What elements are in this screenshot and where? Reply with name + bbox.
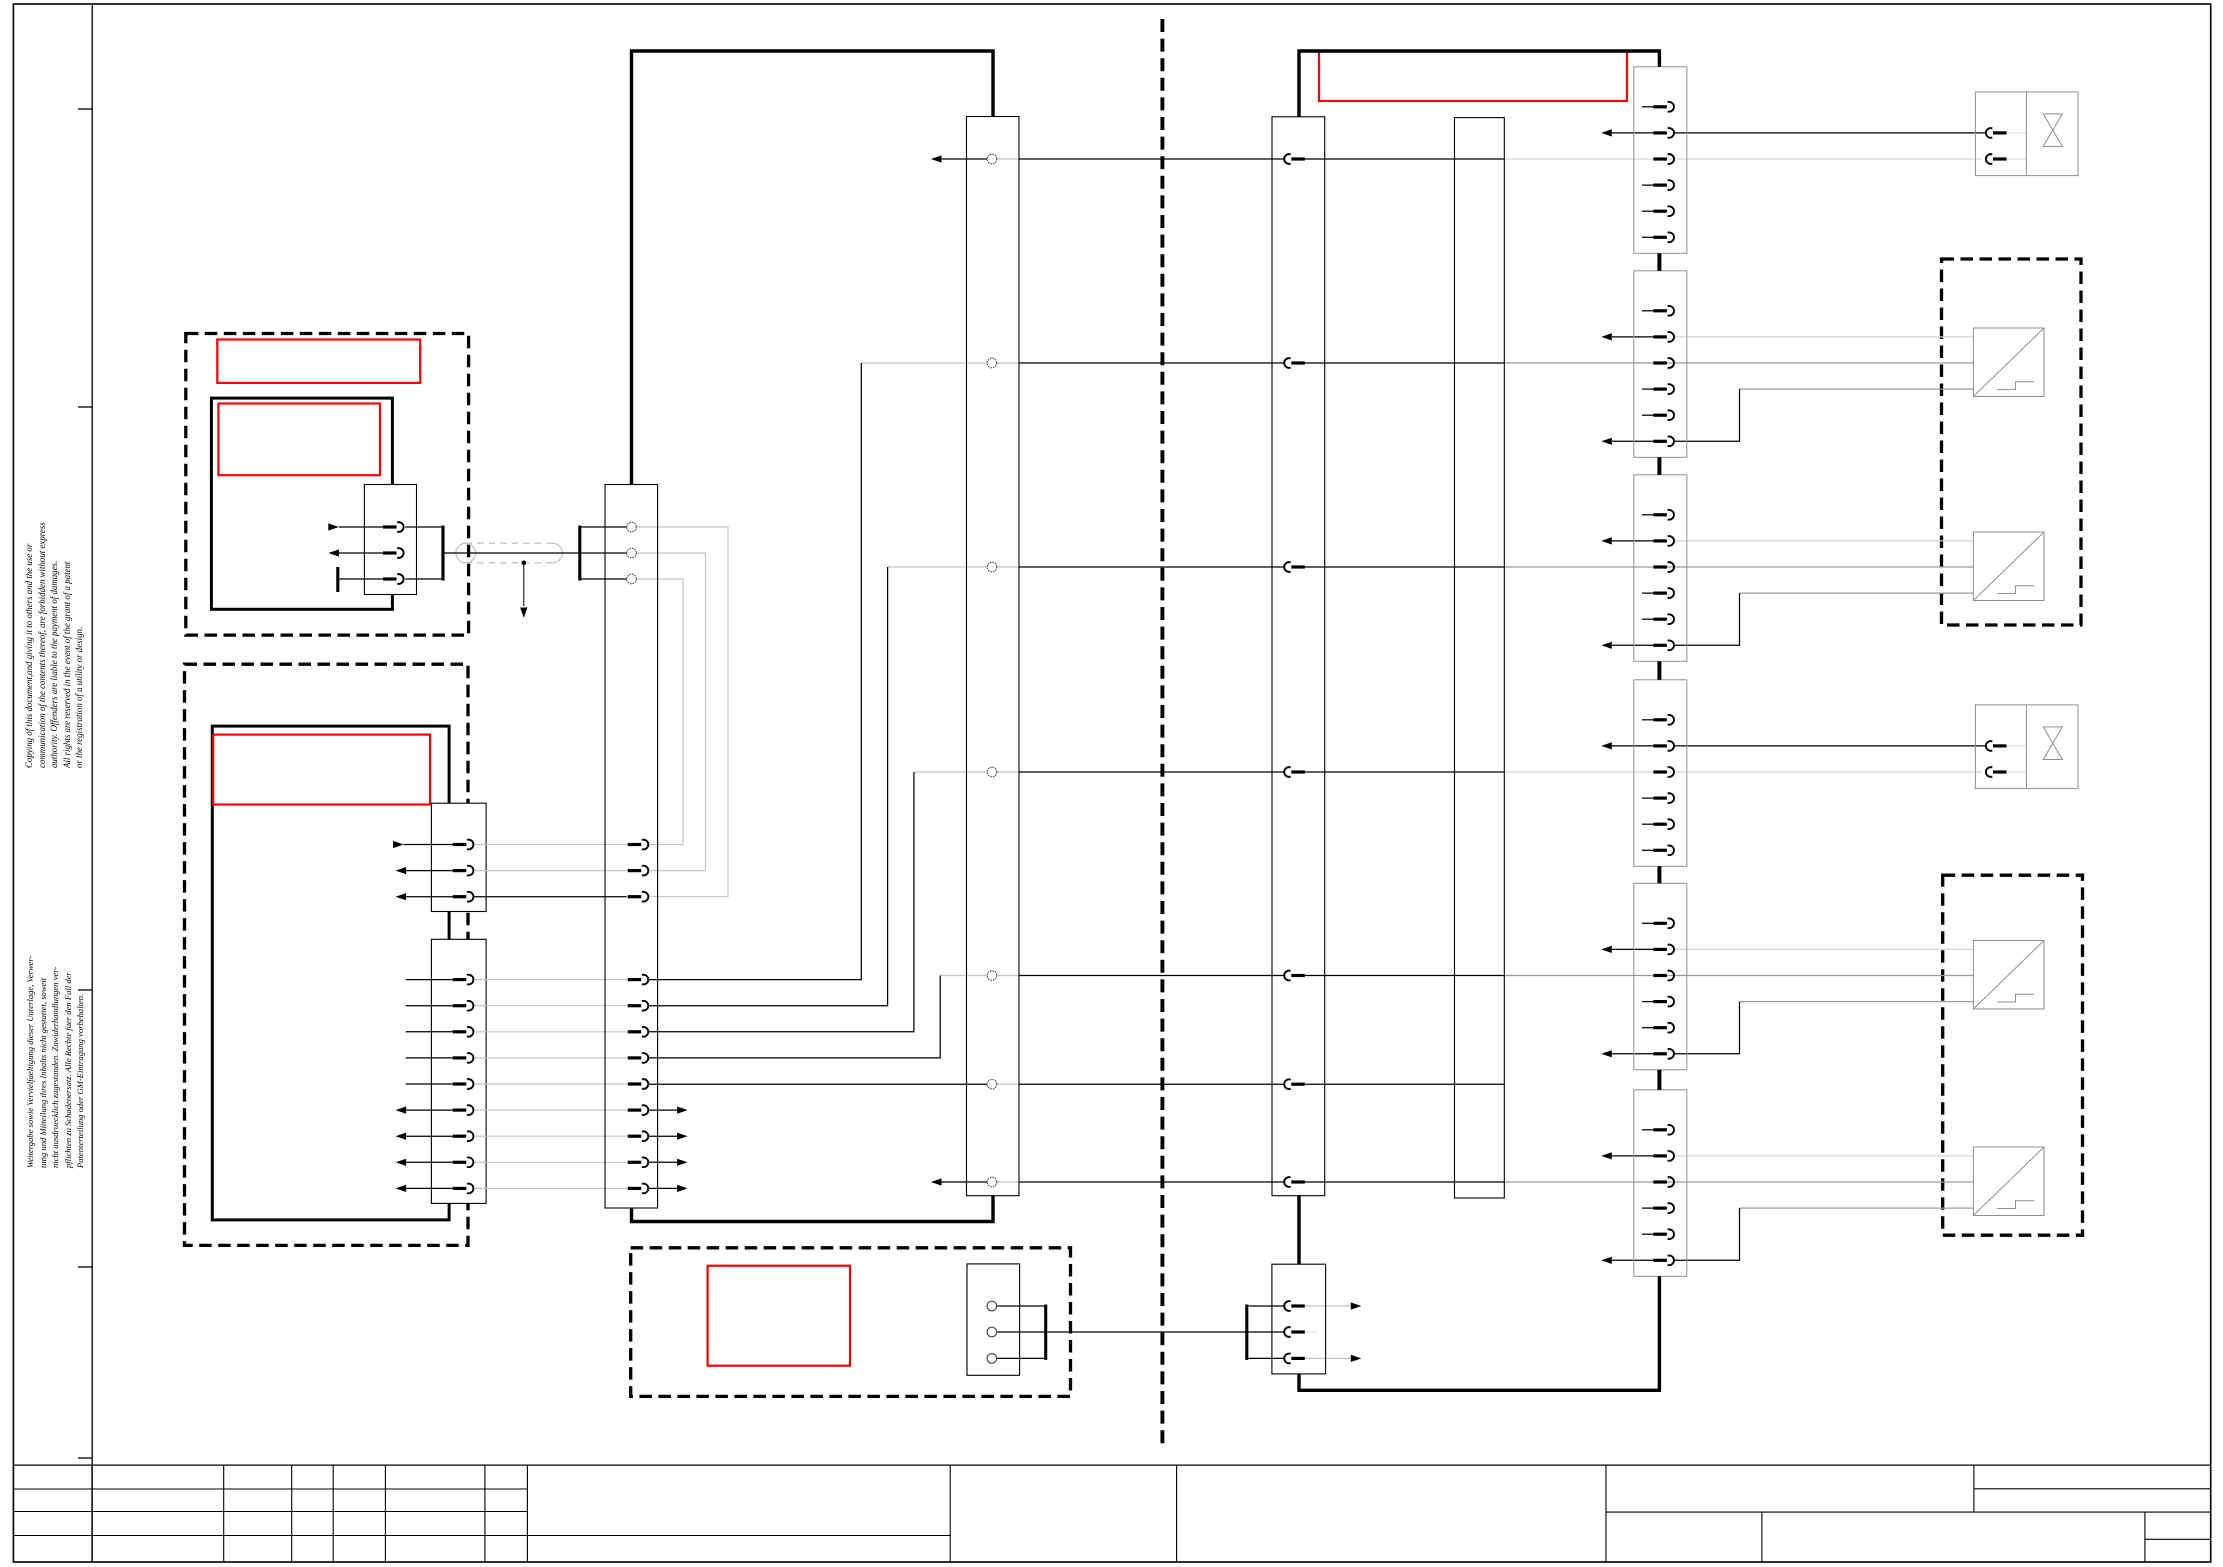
frame margin line (91, 4, 93, 1562)
T1 node 7 gray stub (997, 1181, 1019, 1183)
connector B1 outline (431, 803, 486, 911)
column X2 pin row 1 (628, 840, 649, 850)
plug X4 pin 2 (1284, 1327, 1305, 1337)
strip S6 pin 3 (1653, 1177, 1674, 1187)
arrow out of S5 pin6 (1601, 1050, 1655, 1057)
strip S1 pin 5 stub (1642, 210, 1655, 212)
device A1 inner label red box (218, 404, 380, 476)
wire R5 riser (648, 976, 940, 1058)
column X2 pin row 9 (628, 1105, 649, 1115)
B1-X2 link 2 (473, 870, 627, 872)
T1 node 7 (987, 1177, 997, 1187)
wire sensor B3 pin3 jog (1674, 1002, 1740, 1054)
strip S2 pin 1 stub (1642, 310, 1655, 312)
wire R6 direct (648, 1083, 987, 1085)
wire R3 cross (1019, 566, 1285, 568)
solenoid valve Y2 pin 1 stub (2005, 745, 2026, 747)
link X2.1 wire (636, 527, 728, 897)
arrow out of X4 pin1 (1303, 1302, 1361, 1309)
arrow out of S5 pin2 (1601, 946, 1655, 953)
copyright notice (german) (24, 955, 87, 1168)
wire sensor B4 pin3 jog (1674, 1208, 1740, 1260)
connector B1 pin 1 (453, 840, 474, 850)
wire device A2 to B2 pin 3 (406, 1031, 455, 1033)
strip S5 pin 3 (1653, 971, 1674, 981)
plug X1 pin 2 (383, 548, 404, 558)
terminal strip S5 outline (1634, 883, 1687, 1070)
strip S3 pin 5 (1653, 614, 1674, 624)
wire S4.2 to Y2 (1674, 745, 1986, 747)
strip S4 pin 1 stub (1642, 719, 1655, 721)
socket X3 contact 1 (987, 1301, 997, 1311)
arrow out of S6 pin6 (1601, 1257, 1655, 1264)
T1 node 4 gray stub (997, 771, 1019, 773)
arrow out of B2 pin 9 (396, 1185, 455, 1192)
strip S3 pin 1 stub (1642, 514, 1655, 516)
strip S2 pin 4 (1653, 384, 1674, 394)
column X2 pin row 4 (628, 975, 649, 985)
frame tick (78, 108, 92, 110)
wire device A2 to B2 pin 5 (406, 1083, 455, 1085)
solenoid valve Y1 pin 2 stub (2005, 158, 2026, 160)
wire S2 row3 gray (1504, 362, 1973, 364)
strip S2 pin 5 (1653, 410, 1674, 420)
T2 plug pin 7 (1284, 1177, 1305, 1187)
strip S3 pin 1 (1653, 510, 1674, 520)
solenoid valve Y1 pin 1 (1986, 128, 2007, 138)
column X2 pin row 12 (628, 1184, 649, 1194)
wire R4 riser (648, 772, 914, 1032)
terminal strip S3 outline (1634, 475, 1687, 662)
B2-X2 link 5 (473, 1083, 627, 1085)
wire X3 to X4 cross (1047, 1331, 1284, 1333)
strip S3 pin 4 stub (1642, 592, 1655, 594)
strip S2 pin 2 (1653, 332, 1674, 342)
connector column X2 outline (605, 485, 658, 1209)
strip S4 pin 6 (1653, 845, 1674, 855)
strip S6 pin 6 (1653, 1255, 1674, 1265)
strip S1 pin 1 (1653, 102, 1674, 112)
signal arrow into X1 pin1 (328, 523, 384, 530)
wire S1 row3 gray (1504, 158, 1981, 160)
T1 node 6 gray stub (997, 1083, 1019, 1085)
wire R3 riser (648, 567, 888, 1006)
solenoid valve Y1 pin 2 (1986, 154, 2007, 164)
T2 plug pin 2 (1284, 358, 1305, 368)
plc output label red box (1319, 52, 1627, 102)
terminal strip S6 outline (1634, 1090, 1687, 1277)
strip S4 pin 5 (1653, 819, 1674, 829)
solenoid valve Y2 body (1975, 705, 2078, 789)
socket bracket at X2 (580, 526, 627, 581)
wire S2.2 to sensor B1 (1674, 336, 1974, 338)
T1 node 3 gray stub (997, 566, 1019, 568)
strip S5 pin 1 (1653, 918, 1674, 928)
arrow out of S4 pin2 (1601, 742, 1655, 749)
wire R4 cross (1019, 771, 1285, 773)
arrow out of B2 pin 7 (396, 1133, 455, 1140)
strip S3 pin 5 stub (1642, 618, 1655, 620)
wire S6 row3 gray (1504, 1181, 1973, 1183)
arrow out of B2 pin 6 (396, 1107, 455, 1114)
strip S1 pin 3 (1653, 154, 1674, 164)
strip S1-S2 jumper (thick) (1657, 253, 1661, 270)
T2 plug pin 6 (1284, 1079, 1305, 1089)
wire duct T1 outline (967, 117, 1020, 1196)
strip S3 pin 2 (1653, 536, 1674, 546)
link X2.3 wire (636, 579, 683, 845)
connector B2 pin 2 (453, 1001, 474, 1011)
strip S1 pin 1 stub (1642, 106, 1655, 108)
B1-X2 link 1 (473, 844, 627, 846)
shield T terminator (338, 567, 385, 592)
T1 node 1 (987, 154, 997, 164)
arrow into B1 pin1 (393, 841, 454, 848)
strip S2 pin 5 stub (1642, 414, 1655, 416)
signal arrow out of X1 pin2 (328, 549, 384, 556)
link X2.2 wire (636, 553, 705, 871)
return cable from T1 (thick) (632, 1196, 994, 1222)
strip S6 pin 1 (1653, 1125, 1674, 1135)
T2 plug pin 1 (1284, 154, 1305, 164)
X2 socket contact 1 (627, 522, 637, 532)
strip S1 pin 4 stub (1642, 184, 1655, 186)
wire sensor B2 pin3 lead (1740, 592, 1974, 594)
frame tick (78, 989, 92, 991)
wire S1.2 to Y1 (1674, 132, 1986, 134)
arrow out of S3 pin6 (1601, 642, 1655, 649)
wire R1 to duct (1303, 158, 1504, 160)
strip S1 pin 2 (1653, 128, 1674, 138)
connector B2 pin 7 (453, 1131, 474, 1141)
arrow out of B1 pin3 (396, 893, 455, 900)
strip S4 pin 1 (1653, 715, 1674, 725)
wire R5 cross (1019, 975, 1285, 977)
proximity sensor B3 body (1973, 941, 2044, 1010)
main cable to T1 (thick) (632, 51, 994, 485)
cable shield drain (520, 561, 527, 619)
wire sensor B1 pin3 jog (1674, 389, 1740, 441)
socket X3 outline (967, 1264, 1020, 1375)
wire device A2 to B2 pin 4 (406, 1057, 455, 1059)
connector B2 pin 6 (453, 1105, 474, 1115)
strip S2-S3 jumper (thick) (1657, 457, 1661, 475)
strip S1 pin 6 (1653, 232, 1674, 242)
B1-X2 link 3 (473, 896, 627, 898)
B2-X2 link 1 (473, 979, 627, 981)
wire R4 to duct (1303, 771, 1504, 773)
strip S5 pin 4 stub (1642, 1001, 1655, 1003)
strip S5 pin 5 (1653, 1023, 1674, 1033)
plug X4 pin 3 (1284, 1354, 1305, 1364)
strip S3 pin 6 (1653, 640, 1674, 650)
wire S5.2 to sensor B3 (1674, 948, 1974, 950)
arrow out of X2 row 10 (648, 1133, 688, 1140)
X3 bracket (997, 1305, 1046, 1360)
sensor group B20 dashed enclosure (1943, 875, 2083, 1235)
strip S5-S6 jumper (thick) (1657, 1070, 1661, 1090)
arrow out of S1 pin2 (1601, 129, 1655, 136)
solenoid valve Y2 pin 2 (1986, 767, 2007, 777)
column X2 pin row 6 (628, 1027, 649, 1037)
frame tick (78, 1266, 92, 1268)
strip S6 pin 4 (1653, 1203, 1674, 1213)
terminal strip S2 outline (1634, 271, 1687, 458)
strip S1 pin 4 (1653, 180, 1674, 190)
strip S2 pin 4 stub (1642, 388, 1655, 390)
device A1 dashed enclosure (186, 334, 469, 636)
wire S6.2 to sensor B4 (1674, 1155, 1974, 1157)
arrow out of X4 pin3 (1303, 1355, 1361, 1362)
solenoid valve Y2 pin 1 (1986, 741, 2007, 751)
connector B2 pin 4 (453, 1053, 474, 1063)
connector B2 pin 9 (453, 1184, 474, 1194)
X4 pin2 stub (1303, 1331, 1317, 1333)
T1 node 4 (987, 767, 997, 777)
wire R2 to duct (1303, 362, 1504, 364)
B2-X2 link 9 (473, 1187, 627, 1189)
device A2 label red box (213, 735, 430, 805)
junction box dashed enclosure (631, 1248, 1071, 1397)
sensor group B10 dashed enclosure (1942, 259, 2082, 625)
column X2 pin row 5 (628, 1001, 649, 1011)
wire R6 cross (1019, 1083, 1285, 1085)
connector B2 pin 5 (453, 1079, 474, 1089)
strip S6 pin 2 (1653, 1151, 1674, 1161)
strip S4 pin 4 stub (1642, 797, 1655, 799)
strip S6 pin 4 stub (1642, 1207, 1655, 1209)
wire sensor B1 pin3 lead (1740, 388, 1974, 390)
device A1 label red box (217, 340, 420, 383)
wire sensor B2 pin3 jog (1674, 593, 1740, 645)
wire R5 to duct (1303, 975, 1504, 977)
wire R5 gray drop (940, 975, 987, 977)
wire R1 cross (1019, 158, 1285, 160)
socket X3 contact 3 (987, 1354, 997, 1364)
solenoid valve Y1 body (1975, 92, 2078, 176)
wire R6 to duct (1303, 1083, 1504, 1085)
proximity sensor B2 body (1973, 532, 2044, 601)
wire R2 gray drop (861, 362, 987, 364)
column X2 pin row 3 (628, 892, 649, 902)
solenoid valve Y2 pin 2 stub (2005, 771, 2026, 773)
T1 node 3 (987, 562, 997, 572)
strip S2 pin 1 (1653, 306, 1674, 316)
strip S5 pin 1 stub (1642, 922, 1655, 924)
cable W1 core wire (443, 552, 578, 554)
wire device A2 to B2 pin 1 (406, 979, 455, 981)
plug X1 pin 1 (383, 522, 404, 532)
arrow out of B1 pin2 (396, 867, 455, 874)
title block (13, 1465, 2211, 1562)
column X2 pin row 7 (628, 1053, 649, 1063)
strip S5 pin 4 (1653, 997, 1674, 1007)
proximity sensor B1 body (1973, 328, 2044, 397)
connector B1 pin 2 (453, 866, 474, 876)
connector B2 outline (431, 939, 486, 1203)
X2 socket contact 2 (627, 548, 637, 558)
T2 plug pin 3 (1284, 562, 1305, 572)
B2-X2 link 3 (473, 1031, 627, 1033)
T2 plug pin 5 (1284, 971, 1305, 981)
cable duct outline (1455, 118, 1505, 1198)
X4 to S6 return (thick) (1299, 1276, 1659, 1390)
B2-X2 link 8 (473, 1161, 627, 1163)
solenoid valve Y1 pin 1 stub (2005, 132, 2026, 134)
socket X3 contact 2 (987, 1327, 997, 1337)
strip S2 pin 6 (1653, 436, 1674, 446)
strip S6 pin 5 stub (1642, 1233, 1655, 1235)
strip S4 pin 2 (1653, 741, 1674, 751)
wire R4 gray drop (914, 771, 987, 773)
terminal strip S4 outline (1634, 680, 1687, 867)
strip S1 pin 6 stub (1642, 236, 1655, 238)
wire R1 arrow (931, 155, 987, 162)
arrow out of X2 row 11 (648, 1159, 688, 1166)
wire R7 to duct (1303, 1181, 1504, 1183)
connector B2 pin 1 (453, 975, 474, 985)
arrow out of S6 pin2 (1601, 1152, 1655, 1159)
copyright notice (english) (23, 522, 86, 768)
column X2 pin row 8 (628, 1079, 649, 1089)
device A1 inner unit box (211, 398, 392, 609)
connector B2 pin 3 (453, 1027, 474, 1037)
X2 socket contact 3 (627, 574, 637, 584)
wire duct T2 outline (1272, 117, 1325, 1196)
frame tick (78, 406, 92, 408)
B2-X2 link 6 (473, 1109, 627, 1111)
strip S4 pin 6 stub (1642, 849, 1655, 851)
arrow out of S2 pin6 (1601, 438, 1655, 445)
wire S4 row3 gray (1504, 771, 1981, 773)
plug X4 outline (1272, 1264, 1326, 1374)
plant divider dashed line (1160, 19, 1164, 1445)
strip S4-S5 jumper (thick) (1657, 866, 1661, 883)
strip S4 pin 4 (1653, 793, 1674, 803)
arrow out of S3 pin2 (1601, 537, 1655, 544)
strip S5 pin 2 (1653, 945, 1674, 955)
cable W1 symbol (456, 543, 562, 563)
proximity sensor B4 body (1973, 1147, 2044, 1216)
wire R2 cross (1019, 362, 1285, 364)
T1 node 6 (987, 1079, 997, 1089)
T1 node 2 (987, 358, 997, 368)
X1 bracket (405, 526, 443, 581)
T1 node 5 gray stub (997, 975, 1019, 977)
T1 node 5 (987, 971, 997, 981)
wire R3 to duct (1303, 566, 1504, 568)
arrow out of X2 row 12 (648, 1185, 688, 1192)
wire R7 cross (1019, 1181, 1285, 1183)
wire S3 row3 gray (1504, 566, 1973, 568)
strip S6 pin 1 stub (1642, 1129, 1655, 1131)
strip S2 pin 3 (1653, 358, 1674, 368)
strip S3-S4 jumper (thick) (1657, 661, 1661, 680)
arrow out of S2 pin2 (1601, 333, 1655, 340)
plug X4 pin 1 (1284, 1301, 1305, 1311)
B2-X2 link 4 (473, 1057, 627, 1059)
device A2 dashed enclosure (185, 664, 469, 1245)
junction box label red box (708, 1266, 850, 1366)
wire sensor B4 pin3 lead (1740, 1207, 1974, 1209)
B2-X2 link 7 (473, 1135, 627, 1137)
column X2 pin row 10 (628, 1131, 649, 1141)
connector B2 pin 8 (453, 1157, 474, 1167)
strip S4 pin 3 (1653, 767, 1674, 777)
plug connector X1 outline (364, 485, 416, 595)
T1 node 1 gray stub (997, 158, 1019, 160)
arrow out of X2 row 9 (648, 1107, 688, 1114)
strip S3 pin 3 (1653, 562, 1674, 572)
strip S1 pin 5 (1653, 206, 1674, 216)
strip S6 pin 5 (1653, 1229, 1674, 1239)
column X2 pin row 11 (628, 1157, 649, 1167)
frame tick (78, 1457, 92, 1459)
arrow out of B2 pin 8 (396, 1159, 455, 1166)
terminal strip S1 outline (1634, 67, 1687, 254)
wire S5 row3 gray (1504, 975, 1973, 977)
connector B1 pin 3 (453, 892, 474, 902)
strip S5 pin 5 stub (1642, 1027, 1655, 1029)
wire R3 gray drop (888, 566, 988, 568)
wire S3.2 to sensor B2 (1674, 540, 1974, 542)
wire R7 arrow (931, 1178, 987, 1185)
wire device A2 to B2 pin 2 (406, 1005, 455, 1007)
plug X1 pin 3 (383, 574, 404, 584)
X4 bracket (1247, 1305, 1285, 1360)
wire R2 riser (648, 363, 862, 980)
strip S3 pin 4 (1653, 588, 1674, 598)
T2 to X4 feeder (thick) (1297, 1196, 1300, 1265)
column X2 pin row 2 (628, 866, 649, 876)
device A2 inner unit box (212, 726, 449, 1220)
B2-X2 link 2 (473, 1005, 627, 1007)
T2 plug pin 4 (1284, 767, 1305, 777)
feeder to strip S1 (thick) (1299, 51, 1659, 117)
strip S5 pin 6 (1653, 1049, 1674, 1059)
T1 node 2 gray stub (997, 362, 1019, 364)
wire sensor B3 pin3 lead (1740, 1001, 1974, 1003)
strip S4 pin 5 stub (1642, 823, 1655, 825)
